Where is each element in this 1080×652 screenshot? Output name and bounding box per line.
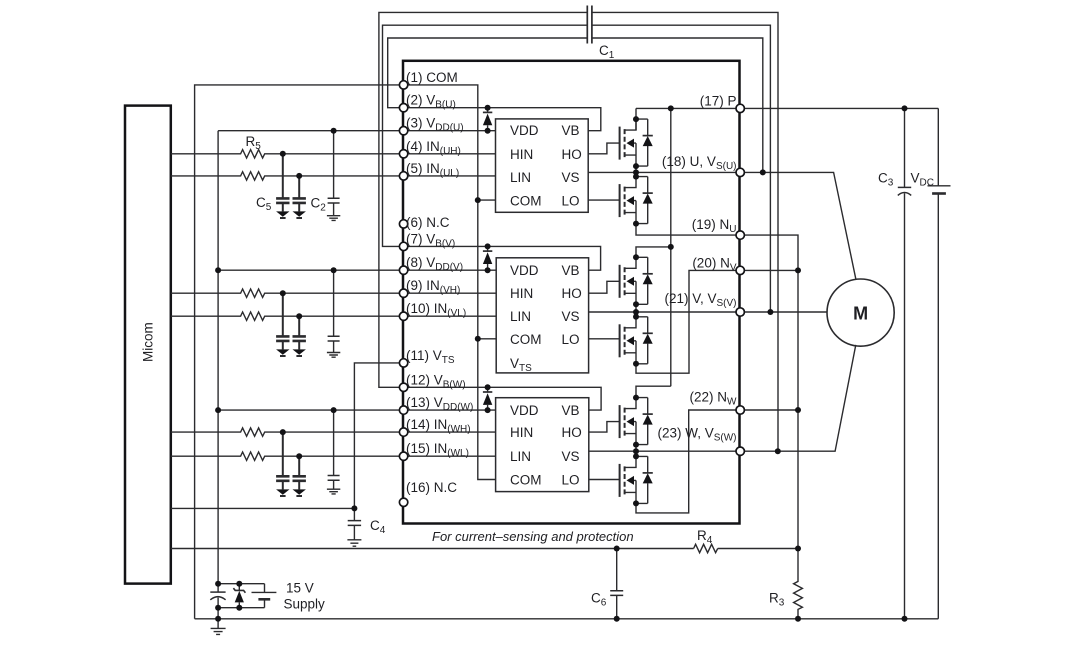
capacitor C2 (on VDD(U) line) (328, 131, 340, 216)
gate driver U2 labels (510, 263, 582, 374)
pin terminal circles left (399, 81, 407, 507)
svg-text:(23) W, VS(W): (23) W, VS(W) (657, 426, 736, 444)
svg-text:15 V: 15 V (286, 581, 314, 596)
wire: COM stub to driver U2 (478, 338, 496, 340)
wire: pin14 IN(WH) into U3 HIN (404, 431, 496, 433)
transistor Q2 (U low-side MOSFET) (620, 177, 636, 224)
15V supply: top wire (218, 583, 264, 585)
body diode D3 (636, 257, 653, 304)
wire: current sense line from Micom (171, 548, 694, 550)
wire: pin15 IN(WL) into U3 LIN (404, 455, 496, 457)
transistor Q6 (W low-side MOSFET) (620, 456, 636, 503)
Micom block (125, 106, 171, 584)
svg-text:Supply: Supply (284, 597, 326, 612)
body diode D5 (636, 398, 653, 445)
wire: VS(W) output line to motor (589, 345, 856, 451)
svg-text:COM: COM (510, 473, 542, 488)
capacitor C5 (on IN(UH) line) (276, 154, 289, 212)
wire: U1 HO staircase to Q1 gate (588, 143, 619, 154)
junction: sense line nodes (614, 546, 801, 552)
wire: VDD 15V rail vertical (217, 131, 219, 584)
svg-text:C4: C4 (370, 518, 386, 536)
gate driver U2 (V phase) box (496, 258, 588, 373)
wire: pin4 IN(UH) into U1 HIN (404, 153, 496, 155)
svg-text:VDC: VDC (911, 171, 934, 189)
wire: pin2 VB(U) to U1 VB (404, 108, 601, 131)
wire: VS(U) output line to motor (588, 172, 856, 279)
wire: pin3 VDD(U) into U1 (404, 130, 496, 132)
svg-text:HO: HO (562, 425, 582, 440)
svg-text:(1) COM: (1) COM (406, 70, 458, 85)
wire: pin13 VDD(W) into U3 (404, 409, 496, 411)
ground (earth) under C4 (347, 540, 361, 546)
svg-text:C3: C3 (878, 171, 894, 189)
svg-text:HO: HO (562, 147, 582, 162)
15V supply: bottom wire (218, 607, 264, 609)
capacitor (on IN(WH) line, dark) (276, 432, 289, 489)
svg-text:C6: C6 (591, 591, 607, 609)
svg-text:LO: LO (562, 194, 580, 209)
wire: pin7 VB(V) to U2 VB (404, 246, 601, 270)
bootstrap loop rect A (outer, VB(W) to VS(W)) (379, 12, 778, 451)
motor M (827, 279, 894, 346)
wire: pin10 IN(VL) into U2 LIN (404, 315, 497, 317)
wire: Q3 source to VS(V) node (635, 304, 637, 317)
ground (dark) under C5 (276, 211, 289, 218)
svg-text:Micom: Micom (141, 322, 156, 362)
svg-text:LIN: LIN (510, 309, 531, 324)
svg-text:(11) VTS: (11) VTS (406, 348, 455, 366)
svg-text:VB: VB (562, 403, 580, 418)
wire: pin9 IN(VH) into U2 HIN (404, 292, 497, 294)
gate driver U3 (W phase) box (496, 398, 589, 492)
junction: P bus taps (668, 105, 908, 250)
ground (earth) under C2 (327, 216, 340, 221)
ground (earth) (327, 489, 340, 494)
junction: N bus taps (795, 267, 801, 413)
wire: supply to bottom rail (217, 608, 219, 619)
junction: C4 tap (351, 505, 357, 511)
svg-text:VB: VB (562, 263, 580, 278)
resistor (pin15 line, unlabeled) (171, 452, 404, 460)
wire: U1 LO to Q2 gate (588, 199, 619, 201)
junction: 15V supply nodes (215, 581, 242, 611)
wire: COM stub to driver U1 (478, 199, 496, 201)
bootstrap loop rect B (middle, VB(V) to VS(V)) (383, 25, 771, 312)
resistor R5 (pin4 line) (171, 150, 404, 158)
svg-text:R3: R3 (769, 591, 785, 609)
resistor (pin9 line, unlabeled) (171, 289, 404, 297)
wire: VDD to pin8 (218, 269, 404, 271)
junction: bottom rail nodes (215, 616, 907, 622)
ground (earth) (327, 353, 340, 358)
svg-text:C1: C1 (599, 43, 615, 61)
capacitor C3 (DC link) (898, 108, 911, 618)
junction: U phase half-bridge nodes (633, 116, 639, 227)
svg-text:VDD: VDD (510, 263, 539, 278)
transistor Q4 (V low-side MOSFET) (620, 317, 636, 364)
junction: IN line cap taps (280, 151, 302, 459)
ground (dark) (276, 349, 289, 356)
wire: sense line right segment (718, 548, 798, 550)
resistor (pin10 line, unlabeled) (171, 312, 404, 320)
wire: pin12 VB(W) to U3 VB (404, 387, 601, 410)
svg-text:(17) P: (17) P (700, 93, 737, 108)
wire: internal COM bus from pin1 (404, 85, 496, 480)
wire: N sense bus vertical (740, 235, 798, 548)
capacitor C6 (610, 549, 623, 619)
pin labels 1-16 (406, 70, 473, 495)
body diode D1 (636, 119, 653, 166)
svg-text:VB: VB (562, 123, 580, 138)
junction: COM bus taps (475, 197, 481, 342)
wire: U2 HO staircase to Q3 gate (589, 281, 620, 293)
svg-text:HIN: HIN (510, 147, 533, 162)
wire: VDD to pin3 (218, 130, 404, 132)
transistor Q1 (U high-side MOSFET) (620, 119, 636, 166)
wire: COM return from pin1 to left rail (195, 85, 404, 619)
wire: Q1 source to VS(U) node (635, 166, 637, 177)
bootstrap diode (W) (483, 387, 492, 410)
zener diode (15V clamp) (233, 584, 245, 608)
capacitor C1 plates (587, 6, 592, 44)
svg-text:VS: VS (562, 449, 580, 464)
capacitor (on IN(WL) line, dark) (293, 456, 306, 489)
transistor Q3 (V high-side MOSFET) (620, 257, 636, 304)
capacitor (on VDD(W) line) (328, 410, 340, 489)
gate driver U1 labels (510, 123, 582, 208)
svg-text:HIN: HIN (510, 286, 533, 301)
svg-text:VDD: VDD (510, 123, 539, 138)
svg-text:(21) V, VS(V): (21) V, VS(V) (664, 291, 736, 309)
svg-text:LIN: LIN (510, 170, 531, 185)
wire: pin5 IN(UL) into U1 LIN (404, 175, 496, 177)
svg-text:(18) U, VS(U): (18) U, VS(U) (662, 154, 737, 172)
svg-text:HO: HO (562, 286, 582, 301)
wire: U2 LO to Q4 gate (589, 338, 620, 340)
resistor R4 (694, 544, 718, 552)
wire: VDD to pin13 (218, 409, 404, 411)
svg-text:C5: C5 (256, 195, 272, 213)
body diode D2 (636, 177, 653, 224)
resistor (pin5 line, unlabeled) (171, 172, 404, 180)
junction: bootstrap loop to VS taps (760, 169, 781, 454)
svg-text:COM: COM (510, 194, 542, 209)
svg-text:For current–sensing and protec: For current–sensing and protection (432, 529, 634, 544)
bootstrap loop rect C (inner, VB(U) to VS(U)) (388, 38, 763, 172)
battery 15V supply symbol (252, 584, 277, 608)
ground (dark) (276, 489, 289, 496)
svg-text:R5: R5 (246, 134, 262, 152)
wire: U3 HO staircase to Q5 gate (589, 422, 620, 433)
svg-text:VTS: VTS (510, 356, 532, 374)
capacitor C4 (348, 508, 361, 539)
wire: pin22 NW to N bus (740, 409, 798, 411)
svg-text:VDD: VDD (510, 403, 539, 418)
junction: VDD line cap taps (215, 128, 337, 413)
wire: P bus vertical drop (670, 108, 672, 386)
svg-text:VS: VS (562, 170, 580, 185)
bootstrap diode (U) (483, 108, 492, 131)
wire: VS(V) output line to motor (589, 311, 827, 313)
capacitor (on VDD(V) line) (328, 270, 340, 352)
battery VDC (928, 108, 951, 618)
svg-text:(19) NU: (19) NU (692, 217, 737, 235)
wire: VTS line from Micom to pin11 (171, 363, 404, 509)
junction: W phase half-bridge nodes (633, 395, 639, 507)
wire: pin8 VDD(V) into U2 (404, 269, 497, 271)
transistor Q5 (W high-side MOSFET) (620, 398, 636, 445)
ground (earth) below supply (211, 619, 226, 635)
svg-text:M: M (853, 304, 868, 324)
body diode D4 (636, 317, 653, 364)
pin labels 17-23 (657, 93, 737, 443)
wire: Q5 drain to P bus end (636, 386, 671, 397)
body diode D6 (636, 456, 653, 503)
svg-text:COM: COM (510, 332, 542, 347)
svg-text:HIN: HIN (510, 425, 533, 440)
svg-text:LO: LO (562, 332, 580, 347)
wire: pin20 NV to N bus (740, 269, 798, 271)
capacitor (on IN(UL) line, dark) (293, 176, 306, 212)
wire: Q5 source to VS(W) node (635, 445, 637, 457)
wire: Q6 source routed up to NW (636, 410, 740, 513)
wire: Q3 drain to P bus (636, 247, 671, 257)
svg-text:(16) N.C: (16) N.C (406, 480, 457, 495)
ground (dark) (293, 349, 306, 356)
wire: Q1 drain to P rail (635, 108, 637, 119)
pin terminal circles right (736, 104, 744, 455)
wire: U3 LO to Q6 gate (589, 479, 620, 481)
svg-text:LO: LO (562, 473, 580, 488)
svg-text:(6) N.C: (6) N.C (406, 215, 450, 230)
ground (dark) (293, 211, 306, 218)
capacitor (on IN(VH) line, dark) (276, 293, 289, 349)
IPM main package box (403, 61, 740, 524)
bootstrap diode (V) (483, 246, 492, 270)
svg-text:(22) NW: (22) NW (690, 390, 738, 408)
svg-text:C2: C2 (311, 196, 327, 214)
gate driver U1 (U phase) box (496, 119, 589, 212)
resistor (pin14 line, unlabeled) (171, 428, 404, 436)
wire: Q4 source routed up to NV (636, 270, 740, 373)
svg-text:VS: VS (562, 309, 580, 324)
junction: V phase half-bridge nodes (633, 254, 639, 367)
wire: P bus rail (pin17) (636, 107, 938, 109)
svg-text:LIN: LIN (510, 449, 531, 464)
wire: bottom ground rail (195, 618, 939, 620)
svg-text:R4: R4 (697, 528, 713, 546)
ground (dark) (293, 489, 306, 496)
capacitor (supply filter, polarized) (210, 584, 225, 608)
gate driver U3 labels (510, 403, 582, 487)
wire: Q2 source down to NU line (636, 224, 740, 236)
capacitor (on IN(VL) line, dark) (293, 316, 306, 349)
resistor R3 (794, 549, 803, 619)
junction: bootstrap diode nodes (485, 105, 491, 413)
